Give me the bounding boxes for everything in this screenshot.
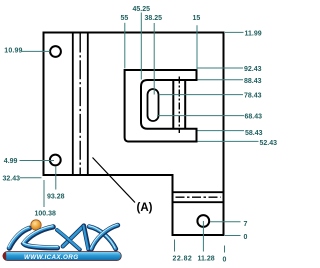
svg-text:(A): (A) <box>137 202 153 214</box>
leader 88.43 <box>198 79 244 81</box>
leader 68.43 <box>157 115 244 117</box>
svg-text:58.43: 58.43 <box>245 130 263 137</box>
svg-text:78.43: 78.43 <box>244 93 262 100</box>
hole top-left <box>50 46 61 57</box>
svg-text:0: 0 <box>244 234 248 241</box>
svg-text:7: 7 <box>244 221 248 228</box>
leader 92.43 <box>198 67 244 69</box>
rod right edge <box>184 81 186 128</box>
top extension 45.25 <box>140 13 142 80</box>
left column centerline (dash-dot) <box>79 34 81 175</box>
rod left edge <box>172 81 174 128</box>
logo letter X stroke 1 <box>89 227 116 249</box>
logo letter i swoosh <box>9 228 29 248</box>
top extension 15 <box>196 25 198 69</box>
svg-text:68.43: 68.43 <box>245 114 263 121</box>
extension 100.38 <box>43 180 45 207</box>
logo banner left cap <box>3 252 7 260</box>
rod centerline (dash-dot) <box>178 77 180 134</box>
left column edge line <box>72 34 74 175</box>
extension 0 bottom <box>224 246 226 253</box>
logo letter X stroke 2 <box>91 225 117 249</box>
hole bottom-left <box>50 155 61 166</box>
svg-text:22.82: 22.82 <box>173 255 193 262</box>
svg-text:93.28: 93.28 <box>47 193 65 200</box>
svg-text:100.38: 100.38 <box>35 210 57 217</box>
leader 4.99 <box>20 160 55 162</box>
logo banner <box>3 252 121 261</box>
logo letter C <box>24 227 58 248</box>
top extension 55 <box>124 23 126 69</box>
leader 0 right <box>225 235 241 237</box>
svg-text:15: 15 <box>193 15 201 22</box>
leader 52.43 <box>198 140 259 142</box>
svg-text:10.99: 10.99 <box>4 47 22 54</box>
logo i dot <box>31 220 41 230</box>
leader 78.43 <box>159 94 243 96</box>
leader 32.43 <box>20 177 42 179</box>
logo A crossbar swoosh <box>57 230 80 250</box>
leader 7 <box>210 221 241 223</box>
svg-text:88.43: 88.43 <box>244 78 262 85</box>
svg-text:92.43: 92.43 <box>244 66 262 73</box>
top extension 38.25 <box>153 23 155 95</box>
extension 22.82 <box>174 240 176 252</box>
tab upper feature line <box>174 191 223 193</box>
main part outline <box>44 33 224 236</box>
svg-text:WWW.ICAX.ORG: WWW.ICAX.ORG <box>24 254 78 261</box>
svg-text:4.99: 4.99 <box>4 158 18 165</box>
svg-text:55: 55 <box>121 15 129 22</box>
svg-text:0: 0 <box>223 256 227 263</box>
left column groove edge line <box>87 34 89 175</box>
tab centerline (dash-dot) <box>176 196 221 198</box>
extension 11.28 (tab hole centerline) <box>202 221 204 252</box>
logo letter A right leg <box>84 226 89 250</box>
tab lower feature line <box>174 201 223 203</box>
svg-text:45.25: 45.25 <box>133 6 151 13</box>
leader 11.99 <box>225 31 244 33</box>
logo letter A left side <box>63 226 84 247</box>
svg-text:52.43: 52.43 <box>260 140 278 147</box>
leader 58.43 <box>198 130 245 132</box>
svg-text:38.25: 38.25 <box>145 15 163 22</box>
extension 93.28 <box>55 166 57 189</box>
svg-text:11.99: 11.99 <box>245 30 262 37</box>
tab hole <box>197 215 209 227</box>
svg-text:11.28: 11.28 <box>198 255 215 262</box>
slot (stadium) <box>148 89 159 121</box>
C-shaped clamp outline <box>125 70 197 142</box>
leader line (A) <box>93 158 136 203</box>
svg-text:32.43: 32.43 <box>3 175 21 182</box>
leader 10.99 <box>22 50 50 52</box>
